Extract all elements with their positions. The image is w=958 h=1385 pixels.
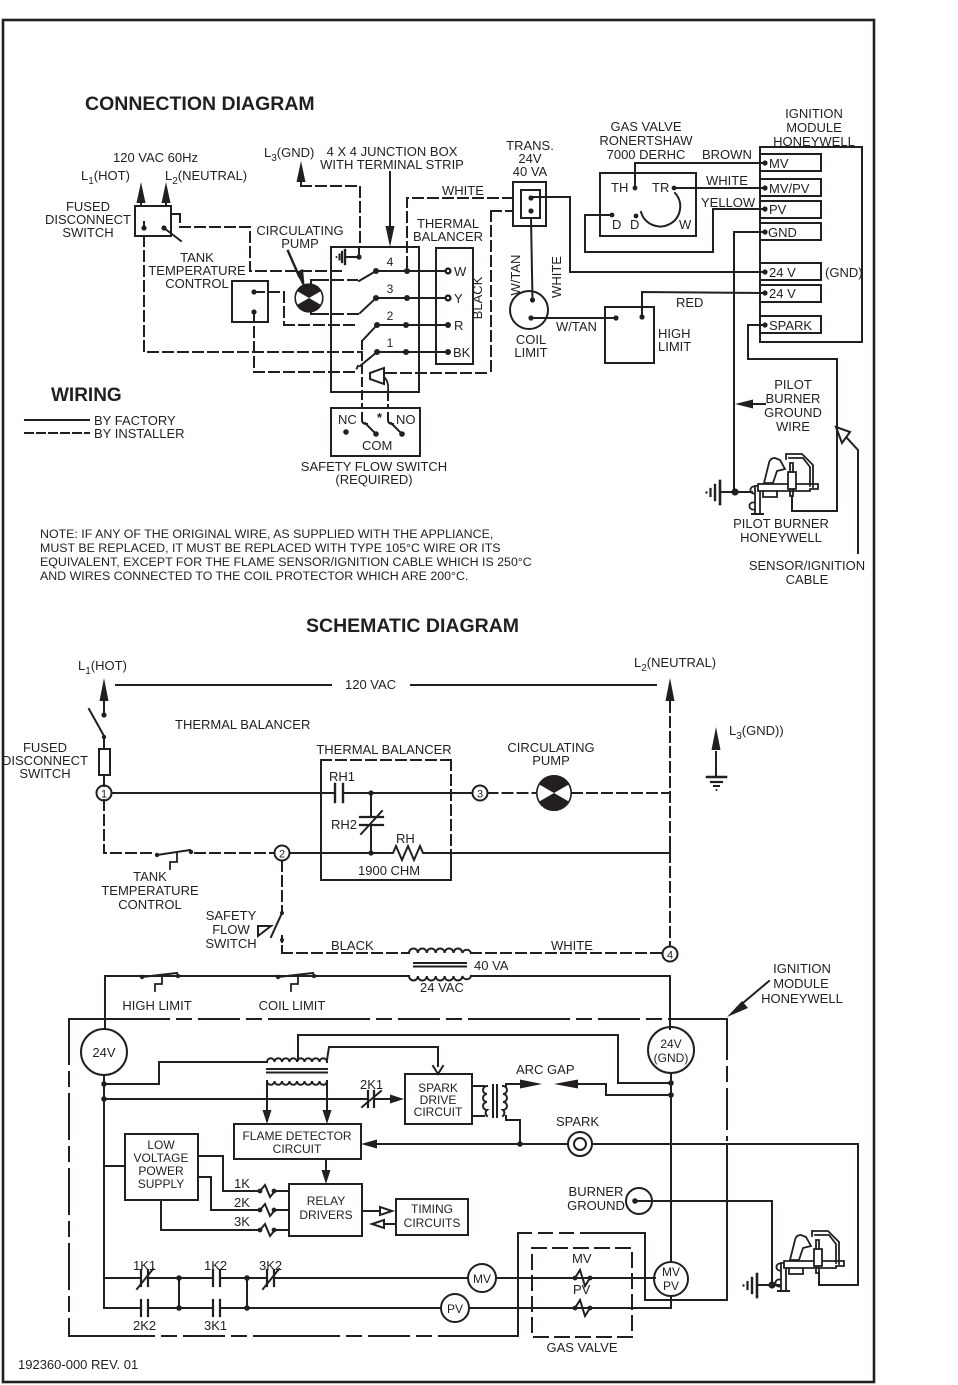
svg-text:TH: TH	[611, 180, 628, 195]
svg-text:SCHEMATIC DIAGRAM: SCHEMATIC DIAGRAM	[306, 615, 519, 637]
svg-text:L3(GND): L3(GND)	[264, 145, 314, 164]
svg-text:TEMPERATURE: TEMPERATURE	[101, 883, 199, 898]
transformer T2 core	[414, 963, 466, 967]
svg-text:THERMAL BALANCER: THERMAL BALANCER	[175, 717, 310, 732]
svg-text:CONTROL: CONTROL	[165, 276, 229, 291]
wire brown TH to module MV	[635, 163, 763, 188]
sensor ignition cable pointer line	[847, 438, 858, 553]
spark transformer T3 secondary	[267, 1081, 327, 1085]
gas valve box	[600, 173, 696, 236]
arrow to pilot ground wire	[752, 403, 765, 405]
fuse F1	[103, 737, 105, 749]
burner ground circle	[626, 1188, 652, 1214]
wire 24vac left loop	[105, 976, 409, 1029]
gas valve dial arc	[641, 193, 680, 226]
wire 120 VAC line	[116, 684, 656, 686]
terminal 4 wire	[376, 270, 448, 272]
capacitor RH1	[334, 784, 336, 802]
wire LVPS output 1	[198, 1156, 258, 1191]
svg-text:(GND): (GND)	[654, 1051, 689, 1065]
resistor 2K	[258, 1208, 263, 1213]
svg-text:3K: 3K	[234, 1214, 250, 1229]
wire white TR to module MV/PV	[674, 187, 763, 189]
svg-text:POWER: POWER	[138, 1164, 184, 1178]
pump top terminal bracket	[311, 280, 318, 287]
svg-text:SPARK: SPARK	[769, 318, 812, 333]
svg-text:CIRCUIT: CIRCUIT	[273, 1142, 322, 1156]
svg-text:RELAY: RELAY	[307, 1194, 345, 1208]
NC contact hook	[362, 413, 367, 424]
NO blade and dot	[391, 423, 401, 433]
gas valve dashed box schematic	[532, 1248, 632, 1337]
svg-text:Y: Y	[454, 291, 463, 306]
svg-text:WHITE: WHITE	[442, 183, 484, 198]
wire relay to timing with open arrow	[362, 1210, 380, 1212]
high limit box	[605, 307, 654, 363]
disconnect switch blade schematic	[89, 709, 104, 736]
ignition module boundary jog around gas valve	[517, 1233, 519, 1336]
svg-text:WHITE: WHITE	[706, 173, 748, 188]
svg-text:THERMAL BALANCER: THERMAL BALANCER	[316, 742, 451, 757]
svg-text:2K2: 2K2	[133, 1318, 156, 1333]
svg-text:PV: PV	[663, 1279, 679, 1293]
ignition module phantom box right upper	[726, 1019, 728, 1140]
thermal balancer terminal strip box	[436, 248, 473, 364]
wire dashed L1 feed into box at row1 level	[144, 236, 362, 352]
svg-text:GROUND: GROUND	[764, 405, 822, 420]
svg-text:120 VAC: 120 VAC	[345, 677, 396, 692]
svg-text:R: R	[454, 318, 463, 333]
sensor ignition cable open arrowhead	[836, 427, 850, 443]
wire dashed black to transformer	[282, 952, 409, 954]
svg-text:1: 1	[101, 789, 107, 801]
terminal box 24V second	[760, 285, 821, 302]
svg-text:HONEYWELL: HONEYWELL	[740, 530, 822, 545]
svg-text:COM: COM	[362, 438, 392, 453]
capacitor contact 2K1	[367, 1091, 369, 1107]
terminal 1 wire	[377, 351, 448, 353]
svg-text:SAFETY: SAFETY	[206, 908, 257, 923]
spark transformer T3 core	[267, 1069, 327, 1073]
svg-text:GAS VALVE: GAS VALVE	[546, 1340, 617, 1355]
node 2	[275, 846, 290, 861]
terminal 2 switch blade	[363, 325, 377, 340]
svg-text:1K2: 1K2	[204, 1258, 227, 1273]
coil limit sensor circle	[510, 291, 548, 329]
timing circuits box	[396, 1199, 468, 1235]
svg-text:1900 CHM: 1900 CHM	[358, 863, 420, 878]
thermal balancer box left solid	[320, 760, 322, 880]
terminal 2 wire	[377, 324, 448, 326]
wire timing to relay with open arrow	[384, 1223, 396, 1225]
junction dot pilot ground	[731, 488, 738, 495]
svg-text:L2(NEUTRAL): L2(NEUTRAL)	[165, 168, 247, 187]
svg-text:GND: GND	[768, 225, 797, 240]
wire arc gap left electrode	[506, 1084, 522, 1086]
svg-text:TIMING: TIMING	[411, 1202, 453, 1216]
svg-text:3: 3	[387, 282, 394, 296]
tank temperature control box	[232, 281, 268, 322]
svg-text:NO: NO	[396, 412, 416, 427]
svg-text:WITH TERMINAL STRIP: WITH TERMINAL STRIP	[320, 157, 464, 172]
wire dashed pump to L2 line	[572, 792, 670, 794]
svg-text:3: 3	[477, 789, 483, 801]
wire W/TAN transformer down to coil limit	[531, 218, 533, 300]
terminal W	[444, 267, 451, 274]
ignition module phantom box top	[69, 1018, 727, 1020]
svg-text:WIRING: WIRING	[51, 385, 122, 406]
svg-text:CONTROL: CONTROL	[118, 897, 182, 912]
svg-text:*: *	[377, 410, 383, 425]
svg-text:ARC GAP: ARC GAP	[516, 1062, 575, 1077]
24V supply circle	[81, 1029, 127, 1075]
arrow to junction box	[389, 172, 391, 228]
wire dashed tank upper to row2 riser	[254, 292, 284, 325]
wire PV circle to gas valve	[469, 1307, 671, 1309]
svg-text:GROUND: GROUND	[567, 1198, 625, 1213]
wire RH row to L2	[426, 845, 670, 853]
thermal balancer box dashed top	[321, 759, 451, 761]
junction box	[331, 247, 419, 392]
svg-text:PV: PV	[573, 1282, 591, 1297]
junction dot pilot ground schematic	[768, 1281, 775, 1288]
arc gap transformer T4 winding left	[472, 1086, 484, 1116]
wire rail to LVPS	[104, 1165, 125, 1167]
relay drivers box	[289, 1184, 362, 1236]
svg-text:2K1: 2K1	[360, 1077, 383, 1092]
fused disconnect switch terminal dot left	[141, 225, 146, 230]
svg-text:192360-000 REV. 01: 192360-000 REV. 01	[18, 1357, 138, 1372]
svg-text:SWITCH: SWITCH	[62, 225, 113, 240]
svg-text:W: W	[679, 217, 692, 232]
svg-text:24V: 24V	[92, 1045, 115, 1060]
svg-text:CIRCUITS: CIRCUITS	[404, 1216, 461, 1230]
junction dot spark feed	[517, 1141, 523, 1147]
wire to spark transformer primary	[104, 1062, 267, 1084]
terminal box 24V first	[760, 263, 821, 280]
svg-text:RH: RH	[396, 831, 415, 846]
svg-text:2K: 2K	[234, 1195, 250, 1210]
contact 3K1	[212, 1300, 214, 1316]
wire dashed vertical link row2 blade to row1 feed	[361, 341, 363, 352]
wire T3 primary right tap up and over to 24Vgnd rail	[298, 1035, 671, 1083]
arc gap transformer T4 winding right	[503, 1086, 507, 1116]
fused disconnect switch box	[135, 206, 171, 236]
svg-text:L3(GND)): L3(GND))	[729, 723, 784, 742]
svg-text:SPARK: SPARK	[556, 1114, 599, 1129]
svg-text:D: D	[630, 217, 639, 232]
wire MV circle to MVPV	[496, 1277, 655, 1279]
wire dashed flow paddle down to safety switch NO	[387, 392, 389, 408]
svg-text:CONNECTION DIAGRAM: CONNECTION DIAGRAM	[85, 93, 315, 115]
svg-text:4: 4	[387, 255, 394, 269]
wire dashed white transformer to node4	[471, 952, 663, 954]
svg-text:LOW: LOW	[147, 1138, 175, 1152]
svg-text:LIMIT: LIMIT	[514, 345, 547, 360]
svg-text:IGNITION: IGNITION	[785, 106, 843, 121]
wire 24vac right loop	[471, 976, 670, 1029]
svg-text:RONERTSHAW: RONERTSHAW	[599, 133, 693, 148]
svg-text:2: 2	[279, 849, 285, 861]
resistor 1K	[258, 1189, 263, 1194]
svg-text:SENSOR/IGNITION: SENSOR/IGNITION	[749, 558, 865, 573]
svg-text:RH1: RH1	[329, 769, 355, 784]
junction dots column A	[176, 1275, 182, 1281]
wire 24V circle down main rail	[103, 1075, 105, 1308]
tank control terminal upper	[251, 289, 256, 294]
node 4	[663, 947, 678, 962]
svg-text:CABLE: CABLE	[786, 572, 829, 587]
bottom row wire left	[104, 1307, 141, 1309]
transformer T1 outer box	[513, 182, 546, 226]
svg-text:PUMP: PUMP	[532, 753, 570, 768]
D2 terminal	[634, 214, 639, 219]
svg-text:SWITCH: SWITCH	[19, 766, 70, 781]
resistor PV	[573, 1306, 578, 1311]
spark electrode circle	[568, 1132, 592, 1156]
wire arc transformer bottom to spark row	[506, 1116, 520, 1144]
svg-text:MUST BE REPLACED, IT MUST BE R: MUST BE REPLACED, IT MUST BE REPLACED WI…	[40, 541, 501, 555]
arrow to module box corner	[737, 981, 769, 1008]
svg-text:L1(HOT): L1(HOT)	[81, 168, 130, 187]
ignition module phantom box left	[68, 1019, 70, 1336]
svg-text:BY INSTALLER: BY INSTALLER	[94, 426, 185, 441]
fused disconnect switch blade	[164, 228, 181, 241]
svg-text:TR: TR	[652, 180, 669, 195]
svg-text:BROWN: BROWN	[702, 147, 752, 162]
svg-text:24 V: 24 V	[769, 265, 796, 280]
arrow L1 schematic	[103, 700, 105, 715]
ignition module phantom box bottom	[69, 1335, 518, 1337]
wire dashed WHITE from transformer to junction box row4	[407, 198, 513, 271]
circulating pump symbol schematic	[536, 775, 572, 811]
arrow flame detector to relay drivers	[325, 1159, 327, 1172]
thermal balancer box right dashed	[450, 760, 452, 852]
svg-text:PV: PV	[769, 202, 787, 217]
arrow L3 up	[300, 180, 302, 186]
svg-text:IGNITION: IGNITION	[773, 961, 831, 976]
legend solid line	[25, 419, 89, 421]
svg-text:SWITCH: SWITCH	[205, 936, 256, 951]
terminal box MV/PV	[760, 179, 821, 196]
svg-text:PILOT: PILOT	[774, 377, 812, 392]
D1 terminal	[610, 213, 615, 218]
svg-text:2: 2	[387, 309, 394, 323]
circulating pump symbol	[295, 284, 324, 313]
wire dashed node1 down to tank control	[104, 800, 154, 853]
terminal box MV	[760, 154, 821, 171]
pump bottom terminal bracket	[311, 309, 318, 314]
wire spark module to sensor cable	[748, 325, 837, 511]
contact 3K2	[247, 1277, 267, 1279]
svg-text:MV: MV	[662, 1265, 680, 1279]
svg-text:(GND): (GND)	[825, 265, 863, 280]
svg-text:BURNER: BURNER	[766, 391, 821, 406]
terminal 1 switch blade	[360, 352, 377, 366]
svg-text:HIGH LIMIT: HIGH LIMIT	[122, 998, 191, 1013]
svg-text:BLACK: BLACK	[470, 276, 485, 319]
svg-text:7000 DERHC: 7000 DERHC	[607, 147, 686, 162]
ground symbol L3	[707, 776, 726, 779]
svg-text:AND WIRES CONNECTED TO THE COI: AND WIRES CONNECTED TO THE COIL PROTECTO…	[40, 569, 468, 583]
svg-text:NOTE: IF ANY OF THE ORIGINAL W: NOTE: IF ANY OF THE ORIGINAL WIRE, AS SU…	[40, 527, 493, 541]
24V GND circle	[648, 1027, 694, 1073]
wire dashed tank control to node2	[195, 852, 274, 854]
junction dot RH2 bottom	[368, 850, 373, 855]
contact 1K2	[179, 1277, 213, 1279]
arrow open into spark drive box	[433, 1066, 443, 1074]
svg-text:L2(NEUTRAL): L2(NEUTRAL)	[634, 655, 716, 674]
svg-text:DRIVERS: DRIVERS	[299, 1208, 352, 1222]
wire rail to 2K1	[104, 1098, 368, 1100]
junction dot rail upper	[101, 1081, 107, 1087]
wire dashed tank lower down to row1 feed	[253, 312, 255, 372]
wire dashed vertical through box bottom to safety switch NC	[361, 352, 363, 408]
svg-text:W: W	[454, 264, 467, 279]
arrow L2 schematic	[669, 700, 671, 707]
transformer T1 top terminal	[528, 195, 533, 200]
wire yellow D1 to module PV	[585, 209, 763, 252]
wire gnd module down to pilot ground	[734, 232, 765, 492]
svg-text:BALANCER: BALANCER	[413, 229, 483, 244]
junction dot rail lower	[101, 1096, 107, 1102]
svg-text:COIL LIMIT: COIL LIMIT	[259, 998, 326, 1013]
wire W/TAN coil limit to high limit	[531, 317, 616, 319]
wire arc gap right electrode	[576, 1084, 671, 1095]
wire dashed BLACK riser	[490, 211, 492, 373]
fused disconnect switch notch	[171, 214, 180, 222]
wire 2K1 to spark drive arrow	[374, 1098, 392, 1100]
junction dots on 24Vgnd rail	[668, 1080, 674, 1086]
terminal Y	[444, 294, 451, 301]
terminal R	[445, 322, 451, 328]
svg-text:1K: 1K	[234, 1176, 250, 1191]
wire node1 to RH1	[112, 792, 335, 794]
wire white from transformer to module 24V	[531, 197, 763, 272]
svg-text:PV: PV	[447, 1302, 463, 1316]
svg-text:4: 4	[667, 950, 673, 962]
svg-text:MV: MV	[769, 156, 789, 171]
terminal box SPARK	[760, 316, 821, 333]
svg-text:W/TAN: W/TAN	[556, 319, 597, 334]
arrow L1 hot up	[140, 200, 142, 206]
arrow L3 schematic with ground	[715, 752, 717, 777]
terminal 4 switch blade	[359, 271, 376, 281]
svg-text:MV/PV: MV/PV	[769, 181, 810, 196]
svg-text:WIRE: WIRE	[776, 419, 810, 434]
transformer T1 bottom terminal	[528, 208, 533, 213]
legend dashed line	[25, 432, 89, 434]
contact 2K2	[140, 1300, 142, 1316]
wire dashed from disconnect to junction box row4	[180, 227, 345, 271]
wire dashed BLACK horizontal to transformer	[491, 210, 513, 212]
wire dashed tank control lower to row1 blade	[254, 366, 358, 372]
wire dashed node2 down to safety flow switch	[281, 861, 283, 911]
pilot burner icon	[735, 491, 752, 493]
svg-text:TANK: TANK	[133, 869, 167, 884]
wire node2 to RH	[290, 852, 391, 854]
arc gap transformer T4 core	[493, 1085, 497, 1117]
svg-text:1: 1	[387, 336, 394, 350]
svg-text:24 VAC: 24 VAC	[420, 980, 464, 995]
NC blade and dot	[365, 423, 375, 433]
svg-text:WHITE: WHITE	[549, 256, 564, 298]
safety flow switch schematic	[280, 911, 284, 915]
TH terminal	[633, 186, 638, 191]
node 1	[97, 786, 112, 801]
svg-text:40 VA: 40 VA	[513, 164, 548, 179]
svg-text:MV: MV	[572, 1251, 592, 1266]
fused disconnect switch terminal dot right	[161, 225, 166, 230]
TR terminal	[672, 186, 677, 191]
svg-text:40 VA: 40 VA	[474, 958, 509, 973]
svg-text:L1(HOT): L1(HOT)	[78, 658, 127, 677]
arrow to pump	[288, 251, 299, 276]
svg-text:GAS VALVE: GAS VALVE	[610, 119, 681, 134]
svg-text:FLOW: FLOW	[212, 922, 250, 937]
wire dashed flow paddle to BLACK riser	[386, 372, 491, 374]
svg-text:MODULE: MODULE	[786, 120, 842, 135]
svg-text:24 V: 24 V	[769, 286, 796, 301]
pilot burner icon schematic	[775, 1231, 844, 1291]
svg-text:PUMP: PUMP	[281, 236, 319, 251]
ground lug in junction box	[346, 249, 359, 257]
terminal 3 wire	[376, 297, 448, 299]
safety flow switch box	[331, 408, 420, 456]
NC terminal dot	[343, 429, 349, 435]
svg-text:RH2: RH2	[331, 817, 357, 832]
node 3	[473, 786, 488, 801]
svg-text:HONEYWELL: HONEYWELL	[761, 991, 843, 1006]
wire MVPV bottom lead	[670, 1296, 672, 1308]
svg-text:BK: BK	[453, 345, 471, 360]
svg-text:120 VAC 60Hz: 120 VAC 60Hz	[113, 150, 198, 165]
svg-text:3K1: 3K1	[204, 1318, 227, 1333]
contact 1K1	[104, 1277, 141, 1279]
svg-text:D: D	[612, 217, 621, 232]
junction dots column B	[244, 1275, 250, 1281]
spark drive circuit box	[405, 1074, 472, 1124]
svg-text:VOLTAGE: VOLTAGE	[134, 1151, 189, 1165]
flow switch paddle symbol in junction box	[370, 368, 384, 384]
wire LVPS output 2	[198, 1177, 258, 1210]
wire T3 primary right end to spark drive feed	[327, 1047, 438, 1066]
tank temperature control switch schematic	[155, 853, 159, 857]
ignition module outer box	[760, 147, 862, 342]
svg-text:WHITE: WHITE	[551, 938, 593, 953]
svg-text:(REQUIRED): (REQUIRED)	[335, 472, 412, 487]
wire red high limit to module 24V	[642, 292, 763, 317]
variable capacitor RH2	[370, 793, 372, 817]
svg-text:MV: MV	[473, 1272, 491, 1286]
wire dashed pump bottom to row3 blade	[318, 313, 358, 315]
MV PV combined circle	[654, 1262, 688, 1296]
high limit switch schematic	[140, 975, 144, 979]
wire dashed pump top to row4 blade	[318, 279, 357, 281]
svg-text:PILOT BURNER: PILOT BURNER	[733, 516, 829, 531]
terminal box PV	[760, 201, 821, 218]
resistor 3K	[258, 1228, 263, 1233]
svg-text:LIMIT: LIMIT	[658, 339, 691, 354]
terminal BK	[445, 349, 451, 355]
ground symbol pilot schematic	[759, 1284, 772, 1286]
wire spark row left to flame detector	[376, 1143, 568, 1145]
svg-text:NC: NC	[338, 412, 357, 427]
coil limit switch schematic	[276, 975, 280, 979]
svg-text:EQUIVALENT, EXCEPT FOR THE FLA: EQUIVALENT, EXCEPT FOR THE FLAME SENSOR/…	[40, 555, 532, 569]
wire dashed L3 to junction box ground	[301, 186, 360, 247]
spark transformer T3 primary	[267, 1058, 327, 1062]
